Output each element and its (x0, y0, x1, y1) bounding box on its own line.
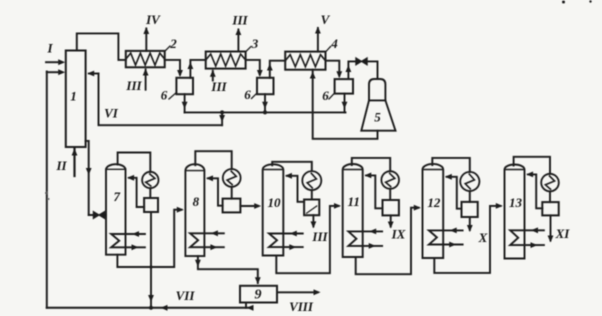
column 7 (106, 164, 126, 255)
column 12 (423, 164, 444, 258)
svg-text:II: II (55, 158, 67, 173)
column 13 (505, 165, 525, 259)
separator 6b (257, 78, 274, 94)
wire: vessel 5 bottom return to exchanger 4 (313, 70, 378, 139)
wire: drum 7 distillate to VII header (150, 212, 152, 308)
svg-text:8: 8 (193, 194, 200, 209)
label 2 with tick (165, 46, 170, 51)
wire: drum 11 product (stream IX) (390, 215, 392, 226)
svg-text:VI: VI (104, 106, 119, 121)
heat exchanger 3 (206, 52, 246, 69)
wire: VI recycle line (99, 74, 223, 126)
wire: condenser 8 to reflux drum (231, 187, 233, 199)
svg-text:III: III (210, 79, 227, 94)
wire: column 12 bottoms to column 13 feed (434, 206, 500, 273)
reboiler coil of column 10 (269, 234, 303, 248)
wire: separator 6c liquid drop (344, 94, 346, 113)
wire: heater 9 to VII header (245, 303, 247, 308)
svg-text:III: III (311, 229, 328, 244)
svg-text:III: III (125, 78, 142, 93)
wire: exchanger 2 outlet to separator 6a (165, 60, 180, 75)
scan speck left edge (45, 192, 48, 195)
wire: drum 8 distillate to column 10 feed (240, 205, 257, 207)
stream III coolant arrow into exchanger 3 (212, 71, 214, 81)
valve on column 7 feed (89, 214, 94, 216)
column 1 (absorber) (66, 51, 86, 148)
wire: condenser 10 to reflux drum (311, 190, 313, 199)
condenser of column 13 (541, 174, 559, 192)
wire: drop to VI line (221, 112, 223, 125)
reflux drum of column 12 (462, 202, 478, 217)
wire: reflux drum 10 to column 10 (287, 176, 304, 202)
junction drum7-VII (149, 306, 153, 310)
svg-text:I: I (46, 41, 53, 56)
separator 6a (176, 78, 193, 94)
wire: column 13 overhead to condenser (514, 157, 550, 174)
wire: reflux drum 7 to column 7 (129, 178, 144, 207)
label 6b with tick (252, 93, 258, 99)
stream III arrow (exchanger 3 top) (237, 30, 239, 52)
svg-text:6: 6 (244, 87, 251, 102)
stream V arrow (exchanger 4 top) (317, 28, 319, 52)
wire: separator 6b liquid drop (264, 94, 266, 112)
wire: column 7 bottoms to column 8 feed (117, 210, 181, 267)
wire: VII recycle riser (left edge) (46, 71, 48, 307)
svg-text:VIII: VIII (289, 299, 314, 314)
svg-text:10: 10 (268, 195, 282, 210)
wire: separator 6a liquid drop (184, 94, 186, 112)
wire: condensate collection header (185, 111, 346, 113)
wire: column 10 bottoms to column 11 feed (276, 206, 338, 273)
reflux drum of column 11 (383, 200, 399, 215)
wire: reflux drum 12 to column 12 (447, 177, 462, 209)
stream IV arrow (exchanger 2 top) (145, 29, 147, 51)
wire: column 8 bottoms to heater 9 (198, 256, 258, 283)
wire: column 11 bottoms to column 12 feed (356, 208, 419, 275)
condenser of column 10 (302, 171, 321, 190)
wire: exchanger 4 outlet to separator 6c (326, 61, 340, 76)
svg-text:6: 6 (322, 88, 329, 103)
wire: reflux drum 11 to column 11 (366, 175, 382, 208)
wire: column 7 overhead to condenser (118, 153, 151, 173)
junction crossing at column 7 bottoms (149, 265, 152, 268)
wire: separator 6c vapor to throttle valve (348, 61, 355, 79)
wire: condenser 11 to reflux drum (389, 189, 391, 200)
scan speck top right (562, 1, 565, 4)
stream III coolant arrow into exchanger 2 (145, 70, 147, 90)
svg-text:6: 6 (161, 88, 168, 103)
wire: column 10 overhead to condenser (272, 162, 312, 171)
svg-text:VII: VII (176, 288, 196, 303)
junction collect-drop (220, 110, 224, 114)
wire: drum 12 product (stream X) (469, 217, 471, 230)
condenser of column 8 (223, 169, 241, 187)
svg-text:3: 3 (251, 36, 259, 51)
svg-text:11: 11 (348, 194, 360, 209)
wire: column 12 overhead to condenser (432, 158, 470, 172)
svg-text:12: 12 (427, 195, 441, 210)
stream I feed arrow lower (recycle VII inlet) (47, 71, 59, 73)
wire: reflux drum 8 to column 8 (208, 178, 223, 205)
label 6c with tick (329, 93, 335, 99)
svg-text:13: 13 (509, 195, 523, 210)
heat exchanger 4 (285, 52, 325, 70)
column 10 (263, 164, 284, 255)
wire: drum 10 product (stream III) (312, 215, 314, 226)
arrow VI into column 1 (89, 73, 99, 75)
label 6a with tick (169, 93, 176, 100)
stream I feed arrow upper (46, 61, 59, 63)
wire: column 1 overhead (77, 33, 126, 60)
reflux drum of column 13 (542, 202, 558, 215)
label 3 with tick (246, 47, 251, 52)
wire: column 11 overhead to condenser (352, 158, 390, 171)
wire: valve to vessel 5 top (368, 61, 378, 79)
heater 9 (240, 286, 277, 303)
svg-text:4: 4 (330, 36, 338, 51)
separator 6c (335, 79, 353, 94)
svg-text:2: 2 (169, 36, 177, 51)
reboiler coil of column 12 (429, 230, 463, 244)
wire: drum 13 product (stream XI) (550, 215, 552, 240)
svg-text:5: 5 (374, 110, 381, 125)
wire: column 1 bottoms to valve (86, 141, 89, 215)
svg-text:X: X (478, 230, 488, 245)
wire: column 8 overhead to condenser (195, 151, 231, 169)
label 4 with tick (326, 47, 331, 53)
condenser of column 7 (142, 172, 158, 188)
wire: exchanger 3 outlet to separator 6b (246, 60, 260, 75)
column 11 (343, 164, 363, 257)
reboiler coil of column 13 (510, 230, 544, 245)
svg-text:IV: IV (145, 12, 161, 27)
svg-text:9: 9 (255, 288, 262, 303)
reflux drum of column 7 (144, 198, 158, 212)
svg-text:V: V (321, 12, 331, 27)
arrow on VII header (left flow, near box 9) (247, 305, 254, 311)
svg-text:III: III (231, 13, 248, 28)
wire: condenser 13 to reflux drum (549, 191, 551, 202)
wire: separator 6b vapor to exchanger 4 (270, 61, 285, 78)
wire: reflux drum 13 to column 13 (528, 174, 542, 208)
heat exchanger 2 (126, 51, 165, 67)
condenser of column 11 (381, 171, 399, 189)
svg-text:1: 1 (70, 89, 77, 104)
svg-text:IX: IX (391, 227, 406, 242)
reboiler coil of column 11 (348, 231, 382, 246)
wire: VII bottom header (47, 307, 252, 309)
reflux drum of column 8 (223, 199, 241, 213)
reboiler coil of column 7 (111, 234, 145, 247)
stream II arrow into column 1 bottom (73, 149, 75, 176)
wire: condenser 7 to reflux drum (149, 188, 151, 198)
wire: condenser 12 to reflux drum (469, 191, 471, 202)
condenser of column 12 (460, 172, 479, 191)
wire: separator 6a vapor to exchanger 3 (190, 60, 205, 78)
arrow on VII header (left flow, mid) (161, 305, 168, 311)
column 8 (185, 164, 204, 256)
throttle valve before vessel 5 (356, 58, 362, 65)
svg-text:XI: XI (555, 226, 571, 241)
svg-text:7: 7 (114, 189, 121, 204)
vessel 5 (expander) (369, 79, 385, 100)
stream VIII arrow from heater 9 (277, 291, 318, 293)
reboiler coil of column 8 (190, 233, 224, 247)
reflux drum of column 10 (304, 200, 319, 216)
junction 6b-collect (263, 110, 267, 114)
